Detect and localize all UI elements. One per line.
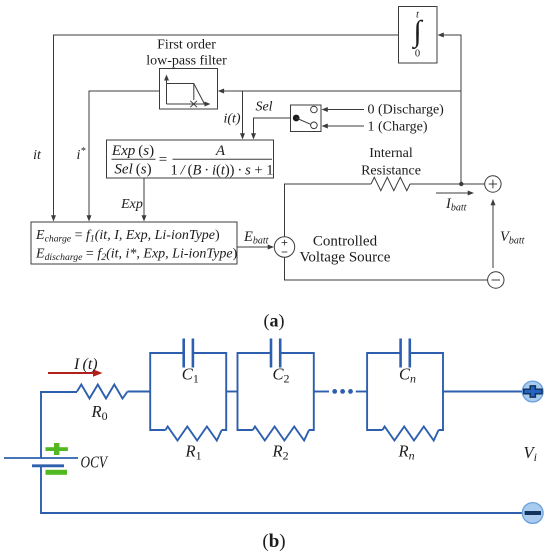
label: Sel [255,100,272,115]
RC box n outline [367,353,443,430]
arrowhead into switch contact 0 [322,107,328,112]
wire: filter output to i*-line down to equations block [89,91,160,218]
wire: box1 to box2 [226,391,237,393]
switch contact 1 [311,122,318,129]
wire: resistor to + terminal [410,183,485,185]
resistor R1 zigzag [166,427,222,441]
equations block [31,222,237,264]
arrowhead i(t) into transfer block [240,133,245,139]
wire: R0 to RC box 1 [128,391,151,393]
integrator block U-int [399,7,438,64]
wire: integrator output left to it-line, down to equations block [54,35,399,218]
label: R0 [91,402,108,423]
terminal + circle [485,176,501,192]
svg-text:First order: First order [157,38,216,53]
switch lever wire [296,118,310,124]
svg-text:Exp: Exp [120,197,143,212]
integrator symbol [411,10,423,60]
svg-text:Resistance: Resistance [361,164,421,179]
label: R1 [185,442,202,463]
arrowhead it into equations block [51,215,56,221]
svg-text:Sel: Sel [255,100,272,115]
plus sign inside controlled voltage source [282,240,288,246]
filter icon axes [167,77,209,104]
low-pass filter block [160,69,218,110]
capacitor Cn plates [401,339,410,368]
I_batt arrowhead [468,191,474,196]
svg-text:=: = [159,152,167,168]
svg-text:1 (Charge): 1 (Charge) [368,120,428,135]
svg-text:Exp (s): Exp (s) [111,143,154,159]
terminal - of panel b [522,503,543,524]
wire: source bottom down and right to - terminal [285,257,488,280]
battery OCV top plate [4,457,78,459]
svg-text:it: it [33,148,42,163]
arrowhead into switch contact 1 [322,124,328,129]
svg-text:low-pass filter: low-pass filter [146,54,227,69]
resistor R0 zigzag [77,385,128,399]
svg-text:Voltage Source: Voltage Source [300,250,391,266]
wire: box n to + terminal [443,391,522,393]
equations text line 2 [35,247,238,264]
I(t) red arrowhead [93,369,103,377]
svg-text:Sel (s): Sel (s) [114,162,151,178]
svg-text:I (t): I (t) [73,356,98,373]
label: C2 [273,365,290,386]
equations text line 1 [35,228,220,245]
wire: source top up and right to resistor [285,184,372,237]
terminal + of panel b [522,381,543,402]
svg-text:i(t): i(t) [223,112,240,127]
arrowhead E_batt into source [268,245,274,250]
svg-text:OCV: OCV [81,453,110,472]
green - mark on battery [46,470,68,475]
label: R2 [272,442,289,463]
RC box 2 outline [238,353,314,430]
arrowhead into filter right side [218,89,224,94]
V_batt arrowhead [491,199,496,205]
filter icon axis arrowheads [164,75,211,107]
switch common pole dot [293,115,300,122]
junction node dot [459,182,463,186]
capacitor C2 plates [271,339,280,368]
wire from 0 (Discharge) label to switch [325,109,365,111]
resistor Rn zigzag [382,427,438,441]
label: Exp [120,197,143,212]
wire: dots to box n [356,391,367,393]
wire: i(t) branch down into transfer-function block [242,91,244,136]
label: 0 (Discharge) [368,103,445,118]
svg-text:0 (Discharge): 0 (Discharge) [368,103,445,118]
V_batt arrow [492,202,494,268]
green + mark on battery [46,443,68,455]
svg-text:Internal: Internal [369,146,413,161]
terminal - circle [488,272,504,288]
svg-text:(b): (b) [262,531,285,551]
label: C1 [182,365,199,386]
ellipsis dots [332,389,353,394]
resistor internal resistance zigzag [371,177,410,190]
svg-text:A: A [215,143,226,159]
filter icon response curve [167,84,205,105]
arrowhead Sel into transfer block [251,133,256,139]
label: it [33,148,42,163]
label: i* [77,146,86,163]
wire from 1 (Charge) label to switch [325,125,365,127]
label: i(t) [223,112,240,127]
wire: battery top to R0 [41,392,77,458]
transfer block formula [111,143,274,179]
I_batt arrow [436,192,471,194]
svg-text:0: 0 [415,49,420,60]
label: Internal Resistance [361,146,421,179]
label: OCV [81,453,110,472]
label: (b) [262,531,285,551]
capacitor C1 plates [184,339,193,368]
wire: branch from feedback line into low-pass filter [221,90,462,92]
resistor R2 zigzag [253,427,309,441]
label: I_batt [445,196,467,214]
wire: E_batt to controlled voltage source [237,246,271,248]
switch block [291,105,322,132]
wire: battery bottom down to bottom rail [41,467,522,513]
label: Cn [399,365,416,386]
svg-text:(a): (a) [264,311,285,332]
battery OCV bottom plate [32,464,64,467]
terminal + cross [489,180,497,188]
label: Controlled Voltage Source [300,234,391,266]
arrowhead i* into equations block [87,215,92,221]
svg-text:Controlled: Controlled [313,234,378,250]
controlled voltage source circle [274,237,294,257]
label: Vi [524,443,537,464]
label: First order low-pass filter [146,38,227,69]
arrowhead Exp into equations block [142,215,147,221]
label: I(t) [73,356,98,373]
label: 1 (Charge) [368,120,428,135]
transfer function block Exp(s)/Sel(s) [107,140,274,178]
wire: box2 toward dots [314,391,329,393]
terminal - dash [492,279,500,281]
label: Rn [398,442,415,463]
label: V_batt [500,229,525,247]
label: E_batt [243,229,269,247]
filter icon X mark [190,101,197,107]
minus sign inside controlled voltage source [282,251,288,253]
I(t) red arrow [48,372,97,374]
svg-text:1 / (B · i(t)) · s + 1: 1 / (B · i(t)) · s + 1 [171,163,274,179]
wire: Sel from switch down into transfer block [254,118,291,136]
wire: feedback from battery node up to integrator input [440,35,461,184]
arrowhead into integrator right side [438,33,444,38]
wire: Exp output down into equations block [143,178,145,218]
RC box 1 outline [150,353,226,430]
label: (a) [264,311,285,332]
switch contact 0 [311,106,318,113]
